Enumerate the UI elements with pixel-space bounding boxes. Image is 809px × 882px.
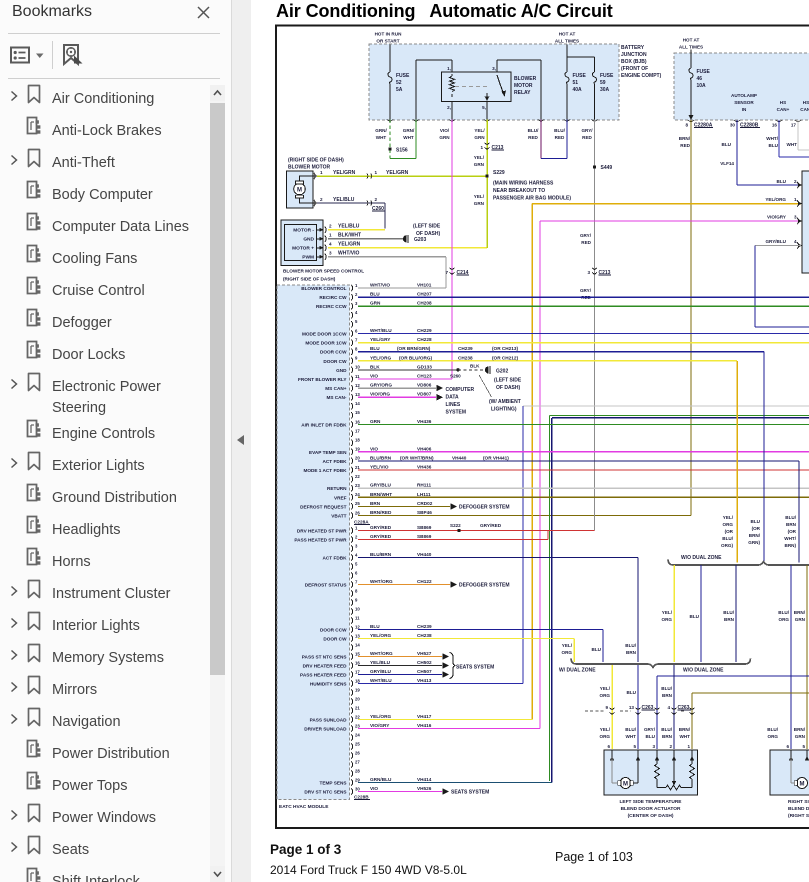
wire C228A pin8 BLU CH239 door ccw [358,351,764,353]
upper brace w/o dual zone [668,560,809,566]
svg-text:GRY/ORG: GRY/ORG [370,383,392,388]
svg-text:1: 1 [329,233,332,238]
svg-text:WHT: WHT [680,734,691,739]
svg-text:3: 3 [355,301,358,306]
svg-text:4: 4 [355,552,358,557]
svg-text:S260: S260 [450,374,461,379]
BJB bottom connector marks [387,120,393,122]
svg-text:BLEND DOOR A: BLEND DOOR A [788,806,809,812]
svg-text:ORG: ORG [779,617,790,622]
svg-text:BLU: BLU [370,624,380,629]
svg-text:CH238: CH238 [458,355,473,360]
svg-text:RED: RED [528,135,538,140]
svg-text:VIO: VIO [370,446,378,451]
svg-text:PASSENGER AIR BAG MODULE): PASSENGER AIR BAG MODULE) [493,196,571,202]
wire relay pin1 loop [451,60,453,72]
wire YEL/ORG vertical to EATC pin 22 [531,204,533,720]
svg-text:DEFOGGER SYSTEM: DEFOGGER SYSTEM [459,583,510,589]
svg-text:4: 4 [667,705,670,710]
schematic frame [276,26,809,829]
svg-text:ENGINE COMPT): ENGINE COMPT) [621,73,662,79]
svg-text:6: 6 [355,328,358,333]
svg-text:G203: G203 [414,237,426,243]
svg-text:MOTOR: MOTOR [514,83,533,89]
svg-text:W/O DUAL ZONE: W/O DUAL ZONE [681,555,722,561]
speed control pin 2 YEL/BLU [325,227,326,233]
svg-text:BLU/: BLU/ [625,643,636,648]
wire BLU/ORG to right actuator [790,565,792,749]
svg-text:DRV ST NTC SENS: DRV ST NTC SENS [304,790,346,795]
svg-text:BRN/: BRN/ [794,610,806,615]
svg-text:17: 17 [355,428,360,433]
splice S229 [485,174,488,177]
actuator horizontal resistor [657,787,666,789]
svg-text:1: 1 [687,744,690,749]
svg-text:9: 9 [355,356,358,361]
smart junction box (right, HOT AT ALL TIMES) [674,53,809,120]
svg-text:30: 30 [355,786,360,791]
svg-text:BLOWER: BLOWER [514,76,537,82]
svg-text:VH406: VH406 [417,446,432,451]
svg-text:FUSE: FUSE [600,73,614,79]
svg-text:VREF: VREF [334,495,347,500]
svg-text:VH101: VH101 [417,283,432,288]
svg-text:ORG: ORG [662,617,673,622]
svg-text:ORG: ORG [562,650,573,655]
svg-text:DOOR CW: DOOR CW [323,637,347,642]
svg-text:21: 21 [355,705,360,710]
svg-text:ALL TIMES: ALL TIMES [555,39,579,44]
wire WHT/BLU EATC pin18 branch: grey top [523,405,809,407]
svg-text:VH417: VH417 [417,714,432,719]
wire C228B pin23 VIO/GRY VH416 driver sunload [358,728,540,730]
svg-text:10A: 10A [697,83,707,89]
svg-text:11: 11 [355,615,360,620]
svg-text:8: 8 [685,123,688,128]
svg-text:MOTOR +: MOTOR + [292,246,314,252]
svg-text:BLU/: BLU/ [723,610,734,615]
svg-text:4: 4 [329,242,332,247]
svg-text:WHT/ORG: WHT/ORG [370,579,393,584]
svg-text:VD806: VD806 [417,383,432,388]
connector C260 [367,200,368,205]
svg-text:CH207: CH207 [417,292,432,297]
svg-text:5,: 5, [482,105,486,110]
svg-text:BRN: BRN [626,650,637,655]
wire WHT/VIO vertical to EATC pin1 [445,257,447,288]
wire C228A pin25 BRN CRD02 defrost request [358,505,450,507]
svg-text:2: 2 [355,534,358,539]
svg-text:BLK: BLK [370,364,380,369]
svg-text:VH413: VH413 [417,678,432,683]
wire relay pin2 down [451,102,453,120]
svg-text:GRY/BLU: GRY/BLU [370,483,392,488]
left temperature blend door actuator [604,750,698,795]
svg-text:BLU: BLU [777,179,787,184]
svg-text:BLU: BLU [722,142,732,147]
svg-text:4,: 4, [794,239,798,244]
svg-text:BLU: BLU [627,690,637,695]
svg-text:DATA: DATA [446,395,460,401]
svg-text:ACT FDBK: ACT FDBK [323,459,348,464]
EATC module pin marks connector C228B [351,527,352,533]
wire C228B pin7 WHT/ORG CH122 defrost status [358,584,450,586]
svg-text:17: 17 [791,123,797,128]
svg-text:(OR WHT/BRN): (OR WHT/BRN) [400,455,434,460]
wire C228A pin6 WHT/BLU CH229 mode door 1ccw [358,333,809,335]
svg-text:FUSE: FUSE [573,73,587,79]
svg-text:M: M [623,781,628,787]
svg-text:S449: S449 [601,165,613,171]
wire YEL/GRN relay pin5 to S229/speed control [486,120,488,248]
svg-text:(OR CH212): (OR CH212) [492,355,518,360]
svg-text:2,: 2, [447,105,451,110]
svg-text:GRN: GRN [474,162,485,167]
svg-text:GRN/: GRN/ [375,128,387,133]
svg-text:3: 3 [652,744,655,749]
svg-text:GRN/: GRN/ [403,128,415,133]
svg-text:12: 12 [355,624,360,629]
svg-text:GRN: GRN [474,135,485,140]
svg-text:1: 1 [355,525,358,530]
svg-text:BOX (BJB): BOX (BJB) [621,59,647,65]
svg-text:LEFT SIDE TEMPERATURE: LEFT SIDE TEMPERATURE [619,799,682,805]
wire YEL/ORG to recirc actuator pin 1 [532,203,801,205]
wire C228A pin3 GRN CH208 recirc ccw [358,305,809,307]
svg-text:(CENTER OF DASH): (CENTER OF DASH) [628,813,674,819]
wire C228B pin2 GRY/RED SB869 pass heated seat pwr [358,539,548,541]
svg-text:BLU/: BLU/ [554,128,565,133]
svg-text:RIGHT SIDE TEMPE: RIGHT SIDE TEMPE [788,799,809,805]
svg-text:BLK: BLK [470,364,480,369]
recirculation door actuator (right edge) [802,171,809,273]
svg-text:BLU/BRN: BLU/BRN [370,455,392,460]
svg-text:GD133: GD133 [417,364,432,369]
svg-text:WHT: WHT [626,734,637,739]
svg-text:(W/ AMBIENT: (W/ AMBIENT [489,399,521,405]
svg-text:30A: 30A [600,87,610,93]
svg-text:MODE 1 ACT FDBK: MODE 1 ACT FDBK [303,468,347,473]
svg-text:YEL/BLU: YEL/BLU [333,197,355,203]
svg-text:DRV HEATER FEED: DRV HEATER FEED [303,664,347,669]
splice S222 [457,529,460,532]
wire BLU C228B pin12 down [602,630,604,663]
svg-text:C228B: C228B [354,795,369,800]
svg-text:26: 26 [355,750,360,755]
svg-text:BLEND DOOR ACTUATOR: BLEND DOOR ACTUATOR [621,806,681,812]
svg-text:VH414: VH414 [417,777,432,782]
svg-text:JUNCTION: JUNCTION [621,52,647,58]
svg-text:VH436: VH436 [417,419,432,424]
wire C228A pin7 YEL/GRY CH228 mode door 1cw [358,342,809,344]
wire BRN/RED from fuse 46 to EATC pin 26 [690,120,692,516]
svg-text:2: 2 [669,744,672,749]
wire C228A pin21 YEL/VIO VH436 mode 1 act feedback [358,469,809,471]
svg-text:7: 7 [445,270,448,275]
svg-text:BLK/WHT: BLK/WHT [338,233,361,239]
svg-text:17: 17 [355,669,360,674]
wire VIO/GRY to recirc actuator pin 3 [540,220,801,222]
svg-text:25: 25 [355,501,360,506]
svg-text:GRY/RED: GRY/RED [370,525,392,530]
wire C228A pin23 GRY/BLU RH111 return [358,487,809,489]
svg-text:(FRONT OF: (FRONT OF [621,66,648,72]
wire C228A pin12 GRY/ORG VD806 MS CAN+ [358,387,436,389]
svg-text:YEL/GRN: YEL/GRN [338,242,361,248]
svg-text:CH502: CH502 [417,660,432,665]
svg-text:MOTOR -: MOTOR - [293,228,314,234]
svg-text:13: 13 [355,392,360,397]
svg-text:ACT FDBK: ACT FDBK [323,556,348,561]
svg-text:7: 7 [355,579,358,584]
svg-text:WHT/BLU: WHT/BLU [370,328,392,333]
svg-text:AUTOLAMP: AUTOLAMP [731,93,757,98]
svg-text:GRN): GRN) [748,540,760,545]
wire C228A pin9 YEL/ORG CH238 door cw [358,360,737,362]
wire VIO/GRN relay pin2 to EATC pin 11 [451,120,453,380]
svg-text:46: 46 [697,76,703,82]
svg-text:1,: 1, [794,197,798,202]
wire C228A pin1 WHT/VIO VH101 blower control [358,287,446,289]
svg-text:CH208: CH208 [417,301,432,306]
EATC HVAC module [277,285,350,800]
wire WHT/BLU pin16 [778,120,780,157]
svg-text:14: 14 [355,401,360,406]
blower motor relay K1 [442,72,512,102]
battery junction box (BJB) [369,44,619,120]
svg-text:VIO/: VIO/ [440,128,450,133]
svg-text:YEL/ORG: YEL/ORG [370,714,391,719]
svg-text:(LEFT SIDE: (LEFT SIDE [413,224,441,230]
wire C228A pin2 BLU CH207 recirc cw [358,296,809,298]
wire BRN/WHT return from right at y693 [692,692,809,694]
svg-text:YEL/: YEL/ [474,194,485,199]
svg-text:GRN: GRN [439,135,450,140]
svg-text:VH440: VH440 [452,455,467,460]
wire C228A pin26 BRN/RED SBP46 vbatt [357,515,359,517]
svg-text:23: 23 [355,723,360,728]
wire C228B pin12 BLU CH239 door ccw [358,629,603,631]
svg-text:ORG): ORG) [721,543,733,548]
svg-text:CH238: CH238 [417,633,432,638]
svg-text:BRN: BRN [370,501,381,506]
wire C228A pin20 BLU/BRN VH440 act feedback [358,460,799,462]
actuator resistor R1 [656,757,658,764]
svg-text:W/ DUAL ZONE: W/ DUAL ZONE [559,668,596,674]
svg-text:VH436: VH436 [417,465,432,470]
wire fuse52 to box bottom [389,84,391,120]
blower motor pin 1 YEL/GRN [314,173,315,179]
svg-text:10: 10 [355,606,360,611]
fuse 52 5A [388,72,392,84]
svg-text:2: 2 [375,197,378,202]
svg-text:RH111: RH111 [417,483,431,488]
svg-text:BATTERY: BATTERY [621,45,645,51]
svg-text:2,: 2, [794,179,798,184]
fuse 51 40A [565,72,569,84]
ground G202 (left side of dash) [485,366,489,373]
svg-text:BRN/: BRN/ [749,533,761,538]
wire WHT pin17 [797,120,799,150]
svg-text:VH416: VH416 [417,723,432,728]
svg-text:CH507: CH507 [417,669,432,674]
svg-text:DOOR CCW: DOOR CCW [320,628,347,633]
svg-text:30: 30 [730,123,736,128]
svg-text:HOT AT: HOT AT [683,38,700,43]
svg-text:WHT/BLU: WHT/BLU [370,678,392,683]
svg-text:G202: G202 [496,369,508,375]
svg-text:6: 6 [786,744,789,749]
wire C228B pin30 VIO VH526 drv seat NTC sensor [358,791,442,793]
svg-text:PWM: PWM [302,255,314,261]
svg-text:(OR BRN/GRN): (OR BRN/GRN) [397,346,431,351]
svg-text:27: 27 [355,759,360,764]
svg-text:BRN/: BRN/ [679,727,691,732]
svg-text:VIO: VIO [370,374,378,379]
svg-text:BLU: BLU [592,647,602,652]
svg-text:12: 12 [355,383,360,388]
svg-text:SBP46: SBP46 [417,510,432,515]
svg-text:ORG: ORG [768,734,779,739]
svg-text:RED: RED [581,240,591,245]
wire C228B pin4 BLU/BRN VH440 act feedback [358,557,638,559]
svg-text:(OR: (OR [752,526,761,531]
svg-text:WHT/VIO: WHT/VIO [338,251,359,257]
svg-text:S156: S156 [396,148,408,154]
svg-text:21: 21 [355,465,360,470]
svg-text:40A: 40A [573,87,583,93]
svg-text:WHT: WHT [376,135,387,140]
svg-text:DOOR CCW: DOOR CCW [320,350,347,355]
svg-text:(OR CH213): (OR CH213) [492,346,518,351]
svg-text:YEL/GRN: YEL/GRN [333,170,356,176]
annotation W/ AMBIENT LIGHTING [479,375,492,397]
wire C228A pin10 BLK GD133 ground [358,369,458,371]
svg-text:WHT/ORG: WHT/ORG [370,651,393,656]
blower motor speed control [281,220,323,266]
svg-text:9: 9 [355,597,358,602]
svg-text:19: 19 [355,687,360,692]
svg-text:RED: RED [680,143,690,148]
speed control pin 1 BLK/WHT [325,236,326,242]
wire BLU/BRN C228B pin4 down [637,558,639,663]
svg-text:3: 3 [587,270,590,275]
svg-text:LINES: LINES [446,402,461,408]
wire GRY/BLU return from right at y676 [657,675,809,677]
svg-text:AIR INLET DR FDBK: AIR INLET DR FDBK [301,423,347,428]
wires below lower brace [611,665,613,749]
wire BRN/ORG to right actuator [806,565,808,749]
svg-text:PASS HEATED ST PWR: PASS HEATED ST PWR [294,538,347,543]
svg-text:(LEFT SIDE: (LEFT SIDE [494,378,522,384]
svg-text:3: 3 [329,251,332,256]
svg-text:RELAY: RELAY [514,90,531,96]
svg-text:PASS SUNLOAD: PASS SUNLOAD [310,718,348,723]
actuator motor M [611,757,613,783]
svg-text:19: 19 [355,447,360,452]
svg-text:RED: RED [582,135,592,140]
svg-text:2: 2 [329,224,332,229]
connector C263 [585,710,605,712]
svg-text:23: 23 [355,483,360,488]
wire GRY/RED from fuse 59 down to EATC C228B pin1 [594,120,596,531]
svg-text:HS: HS [780,100,786,105]
svg-text:WHT/VIO: WHT/VIO [370,283,390,288]
svg-text:GRY/: GRY/ [580,288,592,293]
connector C2280A pin 8 [688,120,694,122]
svg-text:VBATT: VBATT [331,514,346,519]
wire YEL/BLU vertical [384,203,386,229]
svg-text:GRN: GRN [474,201,485,206]
svg-text:BLU: BLU [769,143,779,148]
svg-text:BRN/: BRN/ [794,727,806,732]
wire GRN/WHT U join [389,156,391,159]
svg-text:DEFOGGER SYSTEM: DEFOGGER SYSTEM [459,504,510,510]
svg-text:14: 14 [355,642,360,647]
svg-text:VH526: VH526 [417,786,432,791]
svg-text:3: 3 [355,543,358,548]
connector C214 pin 7 [449,268,454,270]
svg-text:ORG: ORG [723,522,734,527]
splice S449 [593,165,596,168]
svg-text:YEL/VIO: YEL/VIO [370,465,389,470]
svg-text:52: 52 [396,80,402,86]
svg-text:22: 22 [355,714,360,719]
svg-text:BLOWER MOTOR: BLOWER MOTOR [288,165,331,171]
wire C228B pin15 WHT/ORG VH527 pass seat NTC sensor [358,656,442,658]
svg-text:1: 1 [375,170,378,175]
svg-text:BLU/: BLU/ [661,686,672,691]
svg-text:20: 20 [355,696,360,701]
svg-text:YEL/ORG: YEL/ORG [765,197,786,202]
svg-text:VH527: VH527 [417,651,432,656]
svg-text:CRD02: CRD02 [417,501,433,506]
wire relay pin5 down [486,102,488,120]
svg-text:HOT AT: HOT AT [559,32,576,37]
pin 16 [776,120,782,122]
svg-text:YEL/ORG: YEL/ORG [370,355,391,360]
speed control pin 3 WHT/VIO [325,254,326,260]
svg-text:3,: 3, [492,66,496,71]
fuse 59 30A [592,72,596,84]
svg-text:22: 22 [355,474,360,479]
svg-text:24: 24 [355,492,360,497]
svg-text:BLU/: BLU/ [778,610,789,615]
svg-text:VIO/GRY: VIO/GRY [370,723,390,728]
wire GRN/BLU temp sensor pair [550,415,809,417]
svg-text:ALL TIMES: ALL TIMES [679,45,703,50]
svg-text:YEL/: YEL/ [662,610,673,615]
svg-text:GRY/: GRY/ [580,233,592,238]
wire C228B pin22 YEL/ORG VH417 pass sunload [358,719,532,721]
svg-text:SYSTEM: SYSTEM [446,410,467,416]
svg-text:MODE DOOR 1CW: MODE DOOR 1CW [305,341,347,346]
svg-text:1,: 1, [447,66,451,71]
wire GRN/WHT dashed from fuse 52 [389,120,391,157]
svg-text:GRY/RED: GRY/RED [480,523,502,528]
svg-text:BRN/WHT: BRN/WHT [370,492,392,497]
connector C213 pin 1 [484,143,489,145]
svg-text:7: 7 [355,337,358,342]
wire C228B pin16 YEL/BLU CH502 drv heater feed [358,665,442,667]
svg-text:(OR: (OR [725,529,734,534]
svg-text:MS CAN+: MS CAN+ [325,386,346,391]
svg-text:CH239: CH239 [458,346,473,351]
svg-text:DEFROST REQUEST: DEFROST REQUEST [300,504,346,509]
svg-text:SENSOR: SENSOR [734,100,754,105]
svg-text:DOOR CW: DOOR CW [323,359,347,364]
svg-text:BLOWER CONTROL: BLOWER CONTROL [301,286,346,291]
